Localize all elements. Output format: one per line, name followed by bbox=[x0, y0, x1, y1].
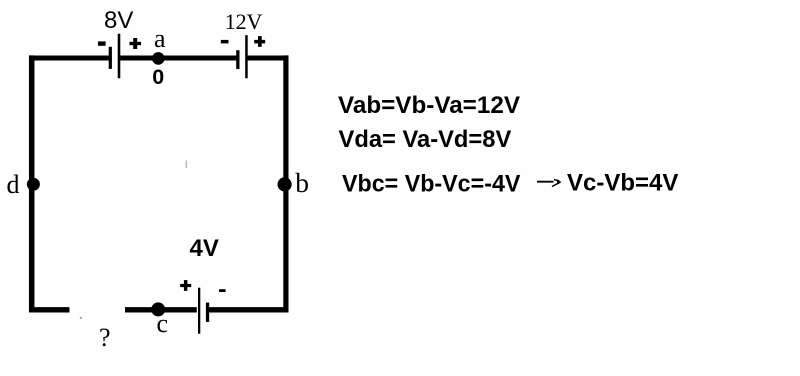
svg-text:8V: 8V bbox=[104, 7, 133, 34]
svg-text:4V: 4V bbox=[190, 235, 219, 262]
svg-text:0: 0 bbox=[152, 65, 164, 89]
wire: top side, middle segment (8V battery plus plate through node a to 12V battery) bbox=[120, 56, 238, 61]
wire: bottom side, left stub ending at open gap "?" bbox=[29, 307, 69, 312]
svg-text:b: b bbox=[295, 167, 309, 198]
node b junction dot (right middle) bbox=[278, 177, 292, 191]
node a junction dot (top middle, reference 0) bbox=[152, 52, 165, 65]
node d junction dot (left middle) bbox=[27, 178, 40, 191]
svg-text:?: ? bbox=[99, 323, 111, 352]
polarity mark: minus of battery B3 4V bbox=[219, 289, 226, 292]
wire: bottom side, middle segment (gap edge through node c to 4V battery) bbox=[125, 307, 197, 312]
polarity mark: minus of battery B2 12V bbox=[221, 40, 229, 44]
svg-text:a: a bbox=[154, 24, 166, 53]
svg-text:d: d bbox=[7, 170, 20, 199]
polarity mark: plus of battery B3 4V bbox=[180, 280, 191, 291]
wire: bottom side, right segment (4V battery to bottom-right corner) bbox=[209, 307, 288, 312]
battery B2 12V (top right): short negative plate bbox=[236, 50, 239, 69]
battery B3 4V: short negative plate bbox=[206, 303, 209, 322]
faint pencil smudge artifact inside loop bbox=[186, 161, 188, 169]
svg-text:Vc-Vb=4V: Vc-Vb=4V bbox=[567, 170, 678, 197]
svg-text:Vda= Va-Vd=8V: Vda= Va-Vd=8V bbox=[339, 126, 512, 153]
polarity mark: plus of battery B1 8V bbox=[130, 38, 142, 49]
implication arrow between equations bbox=[537, 180, 561, 187]
node c junction dot (bottom middle) bbox=[151, 302, 165, 316]
svg-text:c: c bbox=[157, 309, 169, 338]
wire: top side, left segment (corner d-side to 8V battery minus plate) bbox=[29, 56, 109, 61]
wire: left side vertical (through node d) bbox=[29, 55, 35, 312]
svg-text:12V: 12V bbox=[225, 9, 263, 34]
battery B1 8V: long positive plate bbox=[118, 34, 121, 79]
polarity mark: minus of battery B1 8V bbox=[98, 41, 106, 45]
battery B2 12V: long positive plate bbox=[245, 35, 248, 78]
wire: top side, right segment (12V battery plus plate to top-right corner) bbox=[247, 56, 288, 61]
wire: right side vertical (through node b) bbox=[283, 55, 288, 312]
polarity mark: plus of battery B2 12V bbox=[254, 36, 265, 47]
faint speck artifact near bottom gap bbox=[80, 317, 82, 319]
battery B3 4V (bottom): long positive plate bbox=[198, 288, 200, 334]
svg-text:Vab=Vb-Va=12V: Vab=Vb-Va=12V bbox=[338, 92, 520, 119]
svg-text:Vbc= Vb-Vc=-4V: Vbc= Vb-Vc=-4V bbox=[342, 171, 520, 198]
battery B1 8V (top left): short negative plate bbox=[109, 47, 112, 69]
